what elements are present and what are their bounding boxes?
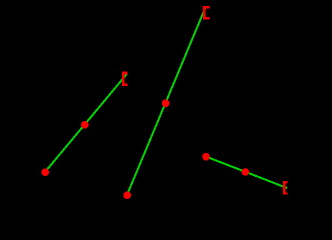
node C1 endpoint dot <box>202 153 210 161</box>
node B1 endpoint dot <box>123 191 131 199</box>
marker bracket M2 at tip of ray B <box>203 6 210 20</box>
wire ray B (steep green line, middle) <box>127 7 206 195</box>
marker bracket M3 at tip of ray C <box>283 181 288 195</box>
marker bracket M1 at tip of ray A <box>122 72 128 87</box>
wire ray C (green line lower-right) <box>206 157 287 189</box>
wire ray A (green line lower-left) <box>45 74 127 172</box>
node A1 endpoint dot <box>41 168 49 176</box>
node B2 through dot <box>162 99 170 107</box>
node A2 through dot <box>81 121 89 129</box>
node C2 through dot <box>242 168 250 176</box>
